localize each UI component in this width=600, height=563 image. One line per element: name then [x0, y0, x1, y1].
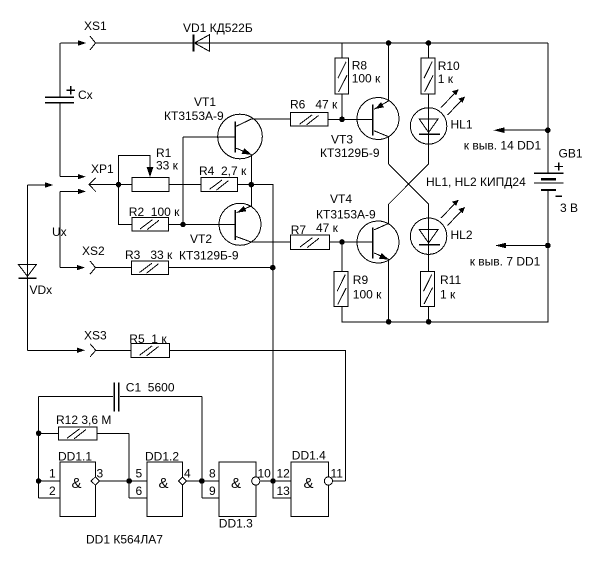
- svg-text:13: 13: [277, 484, 291, 498]
- svg-text:R10: R10: [438, 59, 460, 73]
- gate DD1.3: [202, 462, 271, 530]
- resistor R4: [199, 164, 247, 191]
- wire C1 right vertical: [201, 397, 203, 498]
- wire VT1 collector to R6: [251, 118, 290, 120]
- svg-text:VDx: VDx: [30, 283, 53, 297]
- svg-text:R9: R9: [353, 273, 369, 287]
- connector XS1: [61, 19, 108, 50]
- wire R5 to DD1.4 output: [170, 350, 346, 481]
- svg-text:1 к: 1 к: [438, 72, 454, 86]
- svg-text:3 В: 3 В: [560, 201, 578, 215]
- node emitters junction: [249, 182, 255, 188]
- svg-text:8: 8: [209, 467, 216, 481]
- transistor VT4: [316, 192, 399, 263]
- svg-text:&: &: [231, 475, 241, 492]
- resistor R11: [421, 272, 462, 322]
- svg-text:5: 5: [136, 467, 143, 481]
- wire R2 to VT2 base: [168, 224, 235, 226]
- wire Ux lower branch: [52, 191, 67, 267]
- svg-text:DD1.1: DD1.1: [58, 450, 92, 464]
- node XP1 junction: [116, 182, 122, 188]
- capacitor C1: [39, 381, 202, 412]
- connector XS3: [28, 329, 108, 357]
- node R11 bottom junction: [426, 319, 432, 325]
- LED HL2: [410, 200, 472, 272]
- svg-text:100 к: 100 к: [353, 288, 382, 302]
- svg-text:DD1.4: DD1.4: [292, 449, 326, 463]
- svg-text:DD1.3: DD1.3: [219, 517, 253, 531]
- wire R3 to node: [168, 267, 272, 269]
- wire to pin 14 DD1: [464, 127, 548, 152]
- node R10 top junction: [426, 40, 432, 46]
- svg-text:6: 6: [136, 484, 143, 498]
- node VT3 emitter top junction: [386, 40, 392, 46]
- wire right rail lower: [342, 190, 548, 322]
- resistor R5: [96, 332, 170, 357]
- wire VT2 emitter up: [250, 185, 252, 206]
- svg-text:КТ3153А-9: КТ3153А-9: [316, 208, 376, 222]
- svg-text:&: &: [159, 475, 169, 492]
- wire R12 right vertical: [128, 433, 130, 498]
- svg-text:HL2: HL2: [451, 228, 473, 242]
- wire R1 to R4: [169, 184, 201, 186]
- svg-text:11: 11: [331, 467, 344, 481]
- svg-text:47 к: 47 к: [316, 221, 339, 235]
- diode VD1: [183, 21, 253, 52]
- wire VT2 collector to R7: [251, 241, 290, 243]
- diode VDx: [18, 264, 52, 350]
- svg-text:XS2: XS2: [82, 244, 105, 258]
- node R8 bottom junction: [339, 117, 345, 123]
- wire right rail upper: [547, 43, 549, 173]
- resistor R6: [290, 98, 338, 127]
- gate DD1.4: [277, 449, 344, 517]
- resistor R7: [291, 221, 339, 249]
- resistor R3: [96, 248, 174, 275]
- svg-text:XP1: XP1: [91, 162, 114, 176]
- svg-text:100 к: 100 к: [352, 72, 381, 86]
- svg-text:C1 5600: C1 5600: [126, 381, 175, 395]
- svg-text:к выв. 7 DD1: к выв. 7 DD1: [470, 255, 541, 269]
- svg-text:4: 4: [184, 467, 191, 481]
- resistor R10: [421, 43, 460, 108]
- svg-text:к выв. 14 DD1: к выв. 14 DD1: [464, 139, 542, 153]
- wire VT4 collector up: [388, 204, 390, 223]
- wire R7 to VT4 base: [329, 241, 373, 243]
- svg-text:VD1 КД522Б: VD1 КД522Б: [183, 21, 253, 35]
- resistor R1 (rheostat): [119, 146, 179, 191]
- svg-text:&: &: [72, 475, 82, 492]
- wire VT3 collector down: [388, 137, 390, 164]
- node XS2 junction: [270, 265, 276, 271]
- wire VT1 base vertical: [182, 137, 184, 225]
- svg-text:1 к: 1 к: [440, 288, 456, 302]
- svg-text:R6 47 к: R6 47 к: [290, 98, 338, 112]
- svg-text:R11: R11: [440, 273, 461, 287]
- wire R6 to VT3 base: [328, 118, 373, 120]
- gate DD1.2: [129, 450, 191, 517]
- svg-text:12: 12: [277, 467, 291, 481]
- svg-text:XS1: XS1: [84, 19, 107, 33]
- svg-text:КТ3153А-9: КТ3153А-9: [164, 109, 224, 123]
- node R12 left junction: [36, 431, 42, 437]
- svg-text:КТ3129Б-9: КТ3129Б-9: [179, 249, 239, 263]
- svg-text:DD1.2: DD1.2: [145, 450, 179, 464]
- gate DD1.1: [39, 450, 104, 517]
- svg-text:HL1: HL1: [451, 118, 473, 132]
- node pin1 junction: [36, 478, 42, 484]
- node pin14 junction: [545, 127, 551, 133]
- wire R2 branch: [119, 185, 133, 225]
- connector XS2: [60, 244, 105, 274]
- svg-text:VT1: VT1: [194, 95, 216, 109]
- resistor R9: [334, 242, 382, 307]
- svg-text:VT2: VT2: [190, 232, 212, 246]
- svg-text:2: 2: [49, 484, 56, 498]
- transistor VT2: [179, 203, 261, 262]
- wire DD1.4 out: [333, 480, 346, 482]
- svg-text:1: 1: [49, 467, 56, 481]
- wire XP1 node: [89, 184, 132, 186]
- svg-text:R4 2,7 к: R4 2,7 к: [199, 164, 247, 178]
- svg-text:КТ3129Б-9: КТ3129Б-9: [320, 146, 380, 160]
- wire VT3 emitter up: [388, 43, 390, 101]
- svg-text:VT4: VT4: [330, 192, 352, 206]
- svg-text:VT3: VT3: [331, 133, 353, 147]
- svg-text:10: 10: [258, 467, 272, 481]
- LED HL1: [410, 89, 472, 164]
- svg-text:Ux: Ux: [52, 225, 67, 239]
- wire pin13 tie: [273, 481, 291, 498]
- wire left rail: [27, 185, 29, 278]
- transistor VT3: [320, 98, 399, 161]
- svg-text:33 к: 33 к: [156, 159, 179, 173]
- svg-text:R3 33 к: R3 33 к: [125, 248, 173, 262]
- wire DD1.1 out: [100, 480, 148, 482]
- node base junction: [180, 222, 186, 228]
- wire top rail: [96, 42, 548, 44]
- wire R4 to emitter node: [238, 185, 273, 481]
- node pin12 junction: [270, 478, 276, 484]
- wire to pin 7 DD1: [470, 243, 548, 269]
- resistor R12: [39, 413, 130, 440]
- wire C1 left vertical: [38, 397, 40, 498]
- svg-text:R8: R8: [352, 59, 368, 73]
- svg-text:R12 3,6 М: R12 3,6 М: [56, 413, 111, 427]
- wire VT4 emitter down: [388, 260, 390, 322]
- capacitor Cx: [45, 43, 93, 177]
- svg-text:XS3: XS3: [84, 329, 107, 343]
- resistor R2: [129, 205, 180, 231]
- connector XP1: [28, 162, 115, 194]
- battery GB1: [534, 147, 583, 216]
- resistor R8: [335, 43, 381, 119]
- svg-text:GB1: GB1: [559, 147, 583, 161]
- svg-text:9: 9: [209, 484, 216, 498]
- svg-text:&: &: [304, 475, 314, 492]
- node R9 top junction: [339, 239, 345, 245]
- node pin7 junction: [545, 243, 551, 249]
- svg-text:HL1, HL2 КИПД24: HL1, HL2 КИПД24: [426, 175, 526, 189]
- svg-text:3: 3: [97, 467, 104, 481]
- node pin5 junction: [126, 478, 132, 484]
- svg-text:Cx: Cx: [78, 88, 93, 102]
- wire DD1.3 out: [260, 480, 291, 482]
- node VT4 emitter bottom junction: [386, 319, 392, 325]
- svg-text:DD1 К564ЛА7: DD1 К564ЛА7: [86, 533, 163, 547]
- wire crossing B: [389, 164, 429, 204]
- wire VT1 emitter down: [250, 155, 252, 185]
- wire crossing A: [389, 164, 429, 204]
- node pin8 junction: [199, 478, 205, 484]
- transistor VT1: [164, 95, 262, 159]
- wire DD1.2 out: [187, 480, 219, 482]
